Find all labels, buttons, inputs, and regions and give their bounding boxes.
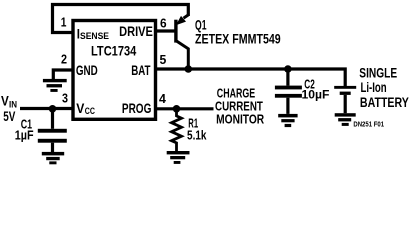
wire BAT rail pin5 to battery <box>156 69 345 86</box>
ground below C1 <box>42 152 64 156</box>
svg-text:GND: GND <box>76 62 98 78</box>
ground at pin 2 <box>43 79 67 82</box>
svg-text:5: 5 <box>160 53 167 67</box>
svg-text:1µF: 1µF <box>15 128 34 142</box>
svg-text:2: 2 <box>61 52 67 66</box>
node collector/BAT junction <box>185 65 193 73</box>
svg-text:3: 3 <box>62 91 68 105</box>
svg-text:10µF: 10µF <box>302 87 330 101</box>
svg-text:SENSE: SENSE <box>80 31 109 42</box>
svg-text:Li-Ion: Li-Ion <box>361 80 387 95</box>
node C2 junction <box>284 65 292 73</box>
ground below battery <box>335 113 356 116</box>
svg-text:MONITOR: MONITOR <box>216 111 264 126</box>
ground below C2 <box>278 114 297 118</box>
svg-text:PROG: PROG <box>122 100 152 116</box>
resistor R1 <box>172 109 182 151</box>
battery single Li-Ion <box>334 86 356 89</box>
node VIN/C1 junction <box>49 105 57 113</box>
svg-text:DN251 F01: DN251 F01 <box>353 120 384 129</box>
IC U1 LTC1734 box <box>73 21 156 120</box>
svg-text:V: V <box>1 94 9 109</box>
wire VIN input rail <box>20 107 73 110</box>
svg-text:4: 4 <box>159 92 166 106</box>
wire pin6 DRIVE to Q1 base <box>156 29 176 32</box>
svg-text:ZETEX FMMT549: ZETEX FMMT549 <box>195 30 281 46</box>
svg-text:5.1k: 5.1k <box>187 127 207 142</box>
svg-text:1: 1 <box>61 16 67 30</box>
svg-text:LTC1734: LTC1734 <box>91 42 136 58</box>
ground below R1 <box>167 151 190 154</box>
svg-text:IN: IN <box>9 99 17 109</box>
transistor Q1 PNP <box>174 20 177 43</box>
capacitor C1 <box>51 109 54 129</box>
svg-text:V: V <box>76 101 84 116</box>
svg-text:SINGLE: SINGLE <box>359 65 397 80</box>
svg-text:BAT: BAT <box>131 62 151 78</box>
capacitor C2 <box>286 69 289 86</box>
node R1/PROG junction <box>173 105 181 113</box>
wire pin1 ISENSE to top rail <box>53 5 189 33</box>
wire pin4 PROG <box>156 107 214 110</box>
svg-text:CC: CC <box>85 106 96 116</box>
svg-text:DRIVE: DRIVE <box>119 23 153 39</box>
svg-text:5V: 5V <box>3 109 15 125</box>
svg-text:BATTERY: BATTERY <box>360 95 409 110</box>
svg-text:6: 6 <box>160 16 167 30</box>
wire pin2 GND to ground <box>53 70 74 79</box>
